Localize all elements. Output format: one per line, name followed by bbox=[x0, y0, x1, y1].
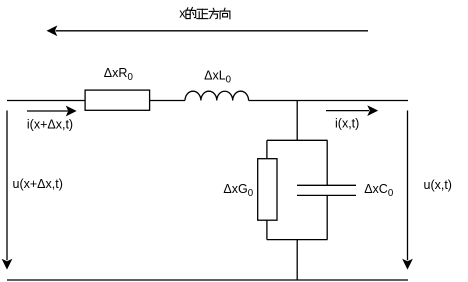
direction arrow (x positive direction), pointing left bbox=[48, 27, 368, 36]
inductor L0 bbox=[185, 91, 249, 100]
svg-text:ΔxL0: ΔxL0 bbox=[204, 68, 232, 85]
wire: parallel-section bottom rail bbox=[267, 239, 328, 241]
current arrow i(x+Δx,t) bbox=[27, 107, 76, 116]
capacitor C0 (two plates) bbox=[297, 185, 356, 195]
svg-text:i(x+Δx,t): i(x+Δx,t) bbox=[27, 117, 73, 131]
wire: junction drop from top line bbox=[296, 101, 298, 141]
wire: bottom line bbox=[7, 279, 408, 281]
svg-text:x: x bbox=[179, 6, 186, 20]
voltage arrow u(x,t), pointing down bbox=[403, 111, 412, 269]
wire: parallel-section top rail bbox=[267, 139, 328, 141]
wire: stub from top rail to G0 bbox=[266, 140, 268, 158]
svg-text:ΔxR0: ΔxR0 bbox=[104, 66, 134, 83]
wire: junction drop to bottom line bbox=[296, 240, 298, 280]
wire: stub from capacitor to bottom rail bbox=[326, 195, 328, 239]
svg-text:i(x,t): i(x,t) bbox=[335, 117, 359, 131]
wire: stub from G0 to bottom rail bbox=[266, 220, 268, 239]
wire: stub from top rail to capacitor bbox=[326, 140, 328, 185]
voltage arrow u(x+Δx,t), pointing down bbox=[3, 111, 12, 269]
wire: between resistor and inductor bbox=[150, 100, 185, 102]
svg-text:u(x,t): u(x,t) bbox=[424, 178, 452, 192]
glyph 向 bbox=[223, 8, 226, 10]
wire: top line left segment bbox=[7, 100, 85, 102]
glyph 正 bbox=[197, 8, 207, 10]
current arrow i(x,t) bbox=[326, 106, 377, 115]
wire: top line right segment bbox=[249, 100, 408, 102]
glyph 的 bbox=[186, 8, 189, 10]
glyph 方 bbox=[212, 8, 215, 10]
resistor R0 bbox=[85, 90, 150, 110]
svg-text:ΔxC0: ΔxC0 bbox=[364, 182, 394, 199]
svg-text:u(x+Δx,t): u(x+Δx,t) bbox=[13, 177, 63, 191]
label: x的正方向 bbox=[179, 6, 230, 20]
svg-text:ΔxG0: ΔxG0 bbox=[223, 182, 253, 199]
resistor G0 (vertical box) bbox=[258, 159, 277, 221]
